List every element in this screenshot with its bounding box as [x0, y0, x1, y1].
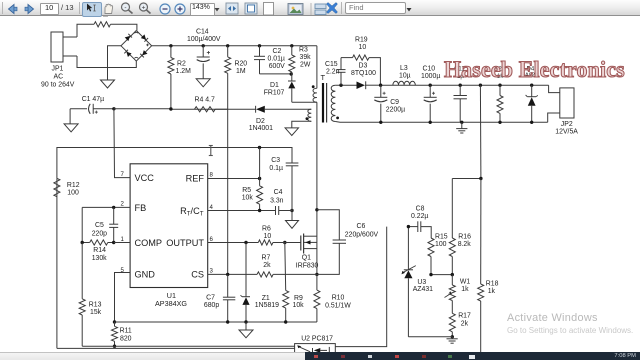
- resistor R7 2k: [257, 254, 317, 277]
- shunt regulator U3 AZ431: [402, 227, 434, 337]
- node R11 top: [113, 320, 116, 323]
- svg-text:15k: 15k: [90, 309, 102, 316]
- svg-text:2k: 2k: [461, 320, 469, 327]
- capacitor C2: [254, 46, 285, 74]
- potentiometer W1 1k: [445, 275, 471, 301]
- resistor R18 1k: [478, 179, 499, 353]
- svg-text:1M: 1M: [236, 68, 246, 75]
- capacitor C11: [454, 67, 467, 123]
- node output rail junctions: [379, 84, 534, 87]
- ground (C3/C4): [286, 221, 299, 229]
- resistor R12: [54, 178, 80, 196]
- resistor R3: [289, 46, 311, 74]
- node OUTPUT junctions: [244, 241, 286, 244]
- svg-text:4: 4: [210, 204, 214, 211]
- svg-text:10µ: 10µ: [399, 72, 411, 79]
- capacitor C14: [187, 29, 221, 79]
- svg-text:39k: 39k: [300, 54, 312, 61]
- svg-text:-: -: [124, 4, 126, 11]
- wire secondary ground rail: [335, 121, 547, 124]
- ground (C14): [196, 79, 210, 87]
- svg-text:VCC: VCC: [135, 173, 155, 183]
- wire C1 ground stem: [69, 109, 71, 124]
- node R2 bottom: [169, 107, 172, 110]
- svg-text:R14: R14: [93, 247, 106, 254]
- resistor R9 10k: [283, 243, 304, 323]
- svg-text:10k: 10k: [242, 195, 254, 202]
- svg-text:C9: C9: [390, 99, 399, 106]
- svg-text:100: 100: [67, 190, 79, 197]
- label U1: [155, 291, 187, 308]
- capacitor C3 0.1u: [269, 157, 298, 211]
- svg-text:5: 5: [121, 267, 125, 274]
- wire opto collector: [335, 227, 386, 347]
- wire U3 anode to R17: [408, 336, 452, 338]
- capacitor C4 3.3n: [270, 189, 292, 215]
- svg-text:7: 7: [121, 171, 125, 178]
- svg-text:10: 10: [264, 233, 272, 240]
- svg-text:R11: R11: [120, 328, 132, 335]
- transformer T: [306, 73, 340, 123]
- svg-text:FB: FB: [135, 203, 147, 213]
- svg-text:0.01µ: 0.01µ: [268, 55, 285, 62]
- connector JP1: [41, 32, 75, 89]
- wire JP1 upper stub: [63, 36, 77, 38]
- resistor R21 bleeder: [494, 67, 506, 123]
- svg-text:JP1: JP1: [52, 66, 64, 73]
- wire JP1 lower stub: [63, 55, 77, 57]
- svg-text:L3: L3: [400, 65, 408, 72]
- svg-text:R17: R17: [458, 313, 471, 320]
- svg-text:12V/5A: 12V/5A: [555, 129, 578, 136]
- resistor R10 0.51/1W: [314, 274, 351, 322]
- wire FB loop left: [81, 207, 83, 242]
- optocoupler U2 PC817: [295, 336, 336, 356]
- svg-text:Q1: Q1: [302, 254, 311, 261]
- resistor R13 15k: [79, 243, 101, 347]
- wire primary bottom / Q1 drain: [316, 102, 318, 274]
- wire GND pin: [115, 273, 131, 323]
- node feedback: [479, 177, 482, 180]
- svg-text:R2: R2: [177, 61, 186, 68]
- svg-text:2: 2: [121, 201, 125, 208]
- ground (C1): [64, 124, 78, 132]
- svg-text:+: +: [142, 4, 146, 11]
- svg-text:220p: 220p: [92, 231, 107, 238]
- wire aux bottom to ground: [292, 121, 312, 128]
- svg-text:U3: U3: [417, 279, 426, 286]
- wire primary top: [316, 46, 318, 89]
- svg-text:Z1: Z1: [262, 295, 270, 302]
- wire HV rail: [152, 45, 317, 47]
- svg-text:D2: D2: [256, 118, 265, 125]
- svg-text:1N5819: 1N5819: [255, 302, 279, 309]
- wire R4 to D2: [215, 108, 255, 110]
- svg-text:8.2k: 8.2k: [458, 241, 472, 248]
- svg-text:R3: R3: [299, 46, 308, 53]
- resistor R16 8.2k: [449, 179, 471, 275]
- svg-text:R15: R15: [435, 233, 448, 240]
- wire REF pin: [208, 178, 260, 180]
- node CS junctions: [226, 273, 319, 276]
- wire secondary output rail: [380, 84, 548, 86]
- wire R12 top: [57, 148, 292, 179]
- ground (R17 earth): [447, 337, 458, 343]
- diode D1 FR107: [264, 74, 296, 102]
- svg-text:3.3n: 3.3n: [270, 197, 284, 204]
- svg-text:3: 3: [210, 268, 214, 275]
- svg-text:COMP: COMP: [135, 238, 163, 248]
- wire primary ground bus: [115, 321, 317, 323]
- text cursor artifact: [209, 146, 213, 156]
- svg-text:C2: C2: [273, 48, 282, 55]
- wire VCC column: [114, 109, 130, 178]
- ground (secondary earth): [456, 129, 467, 133]
- wire OUTPUT pin: [208, 242, 259, 244]
- wire C3 ground stem: [291, 211, 293, 221]
- svg-text:AZ431: AZ431: [413, 286, 433, 293]
- wire REF bus to opto: [57, 347, 295, 349]
- wire CS pin: [208, 273, 257, 275]
- svg-text:C10: C10: [423, 66, 436, 73]
- connector JP2: [548, 85, 579, 135]
- svg-text:D1: D1: [270, 82, 279, 89]
- svg-text:C5: C5: [95, 222, 104, 229]
- svg-text:90 to 264V: 90 to 264V: [41, 82, 75, 89]
- capacitor C15: [325, 58, 346, 86]
- svg-text:T: T: [321, 73, 326, 82]
- svg-text:R19: R19: [355, 37, 368, 44]
- svg-text:R6: R6: [262, 225, 271, 232]
- svg-text:1.2M: 1.2M: [176, 68, 192, 75]
- svg-text:C1 47µ: C1 47µ: [82, 96, 104, 103]
- diode D3 8TQ100: [351, 62, 380, 89]
- svg-text:C14: C14: [196, 29, 209, 36]
- resistor R5 10k: [242, 179, 263, 211]
- svg-text:R5: R5: [242, 187, 251, 194]
- node U3 top: [407, 225, 410, 228]
- svg-text:C15: C15: [325, 61, 338, 68]
- wire divider mid: [431, 274, 452, 276]
- resistor R4 4.7: [195, 96, 216, 112]
- node R17 bottom: [451, 335, 454, 338]
- label F1 (clipped by toolbar): [96, 14, 108, 16]
- svg-text:0.1µ: 0.1µ: [269, 165, 283, 172]
- svg-text:D3: D3: [359, 62, 368, 69]
- svg-text:C7: C7: [206, 294, 215, 301]
- svg-text:AP384XG: AP384XG: [155, 299, 187, 308]
- capacitor C1 47u: [70, 96, 114, 114]
- fuse F1: [94, 22, 111, 27]
- svg-text:R16: R16: [458, 233, 471, 240]
- resistor R14 130k: [82, 240, 114, 262]
- node FB-C5: [112, 206, 115, 209]
- svg-text:R18: R18: [486, 281, 499, 288]
- diode Z1 1N5819: [241, 243, 280, 323]
- node R11 bottom: [113, 345, 116, 348]
- node COMP junctions: [81, 241, 116, 244]
- svg-text:R20: R20: [235, 61, 248, 68]
- resistor R11 820: [112, 322, 132, 346]
- wire R20 to CS node: [227, 73, 229, 274]
- capacitor C6 220p/600V: [317, 210, 379, 275]
- svg-text:IRF830: IRF830: [296, 262, 319, 269]
- svg-text:1: 1: [121, 236, 125, 243]
- svg-text:130k: 130k: [92, 255, 107, 262]
- node ground rail junctions: [379, 121, 533, 124]
- svg-text:R13: R13: [89, 301, 102, 308]
- inductor L3 10u: [393, 65, 415, 85]
- ground (main): [239, 330, 253, 338]
- svg-text:100: 100: [435, 241, 447, 248]
- transistor Q1 IRF830: [296, 234, 319, 270]
- svg-text:W1: W1: [460, 279, 471, 286]
- wire snubber bottom: [260, 73, 292, 75]
- wire COMP: [114, 242, 130, 244]
- svg-text:6: 6: [210, 236, 214, 243]
- svg-text:FR107: FR107: [264, 90, 285, 97]
- wire RT/CT pin: [208, 210, 276, 212]
- svg-text:600V: 600V: [269, 63, 285, 70]
- wire AC line top: [77, 24, 94, 37]
- svg-text:R9: R9: [294, 295, 303, 302]
- ground (aux): [285, 128, 298, 136]
- bridge rectifier BR1: [121, 31, 152, 62]
- svg-text:100µ/400V: 100µ/400V: [187, 36, 221, 43]
- node divider junctions: [429, 273, 454, 276]
- wire D1 to primary: [292, 101, 317, 103]
- svg-text:1k: 1k: [461, 286, 469, 293]
- capacitor C7 680p: [204, 274, 235, 322]
- capacitor C8 0.22u: [408, 205, 431, 238]
- ground (bridge): [101, 80, 115, 88]
- node drain-C6: [315, 208, 318, 211]
- wire C1 node to R2: [114, 108, 228, 110]
- svg-text:0.51/1W: 0.51/1W: [325, 302, 351, 309]
- node HV rail junctions: [169, 44, 293, 47]
- node C1/VCC: [112, 107, 115, 110]
- wire earth stem: [461, 122, 463, 128]
- svg-text:10: 10: [359, 44, 367, 51]
- resistor R6 10: [258, 225, 301, 245]
- capacitor C5 220p: [92, 207, 119, 242]
- wire REF to rail: [259, 148, 261, 179]
- wire secondary to D3: [335, 84, 356, 86]
- svg-text:C8: C8: [416, 205, 425, 212]
- wire FB: [82, 206, 130, 208]
- op-amp U1 AP384XG (PWM controller): [121, 164, 214, 288]
- svg-text:U2 PC817: U2 PC817: [301, 336, 333, 343]
- wire bridge minus to ground: [108, 46, 122, 80]
- wire R16 top: [452, 178, 481, 180]
- svg-text:GND: GND: [135, 269, 156, 279]
- svg-text:CS: CS: [191, 270, 204, 280]
- svg-text:8TQ100: 8TQ100: [351, 70, 376, 77]
- wire fuse to bridge: [111, 24, 137, 30]
- svg-text:2.2n: 2.2n: [326, 69, 340, 76]
- svg-text:1N4001: 1N4001: [249, 125, 273, 132]
- node REF-wire: [258, 146, 261, 149]
- svg-text:R10: R10: [332, 294, 345, 301]
- resistor R2: [168, 46, 191, 109]
- svg-text:C4: C4: [274, 189, 283, 196]
- wire REF bus: [56, 178, 58, 348]
- capacitor C9 2200u: [374, 85, 405, 122]
- svg-text:2k: 2k: [263, 262, 271, 269]
- node RT/CT junctions: [258, 209, 294, 212]
- wire feedback tap: [479, 85, 482, 178]
- svg-text:0.22µ: 0.22µ: [411, 213, 428, 220]
- svg-text:R4 4.7: R4 4.7: [195, 96, 215, 103]
- node ground bus junctions: [226, 320, 287, 323]
- resistor R20: [225, 46, 248, 75]
- svg-text:REF: REF: [186, 174, 205, 184]
- svg-text:C3: C3: [271, 157, 280, 164]
- diode D2 1N4001: [249, 106, 273, 132]
- wire ground stem: [245, 322, 247, 330]
- svg-text:R7: R7: [262, 254, 271, 261]
- svg-text:2W: 2W: [300, 61, 311, 68]
- wire R13/R11 to opto: [82, 345, 294, 347]
- resistor R15 100: [428, 233, 448, 274]
- svg-text:220p/600V: 220p/600V: [345, 231, 379, 238]
- resistor R17 2k: [449, 301, 471, 337]
- svg-text:1000µ: 1000µ: [421, 73, 440, 80]
- svg-text:JP2: JP2: [561, 121, 573, 128]
- svg-text:AC: AC: [54, 74, 64, 81]
- svg-text:R12: R12: [67, 182, 80, 189]
- node snubber: [290, 72, 293, 75]
- node REF pin: [258, 177, 261, 180]
- capacitor C10 1000u: [421, 66, 440, 123]
- svg-text:2200µ: 2200µ: [386, 107, 405, 114]
- svg-text:OUTPUT: OUTPUT: [166, 238, 204, 248]
- svg-text:820: 820: [120, 335, 132, 342]
- svg-text:680p: 680p: [204, 302, 219, 309]
- resistor R19: [341, 37, 380, 86]
- zener D4 SA92A: [521, 66, 539, 122]
- svg-text:1k: 1k: [488, 288, 496, 295]
- svg-text:8: 8: [210, 172, 214, 179]
- svg-text:C6: C6: [357, 223, 366, 230]
- svg-text:10k: 10k: [293, 302, 305, 309]
- node sec-C15: [339, 84, 342, 87]
- wire D2 to aux winding: [265, 108, 312, 110]
- wire AC line bottom: [77, 56, 136, 68]
